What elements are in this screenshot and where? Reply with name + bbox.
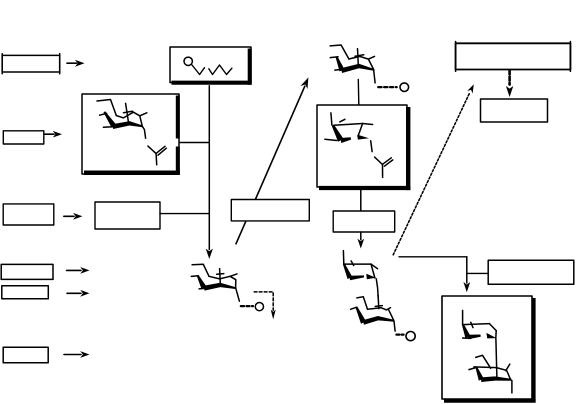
sugar R (upper in box P): thin bonds: [463, 310, 497, 338]
box Q (right): [488, 260, 574, 284]
sugar I: bold wedges: [343, 264, 376, 281]
long diagonal arrow A10 (under box E): [236, 77, 308, 243]
sugar S: anomeric bond down: [511, 381, 513, 393]
lipid icon: circle head: [184, 57, 192, 65]
reaction box E (over diagonal arrow): [231, 200, 309, 221]
sugar J: thin bonds: [351, 295, 394, 320]
dashed arrow A11 from box K to box L: [506, 71, 513, 98]
reagent box R5: [2, 286, 49, 299]
shadowed box G (sugar 2 box): [317, 105, 410, 190]
sugar I: thin bonds: [343, 251, 377, 278]
sugar C1: anomeric bond down: [142, 126, 145, 138]
arrow A5: [67, 290, 90, 297]
sugar E2 (center): thin bonds: [191, 264, 237, 289]
wire: box N to vertical line: [160, 213, 209, 215]
sugar E2: dashed bond to O circle: [241, 303, 264, 311]
reagent box R1 (top left): [2, 54, 60, 74]
sugar J: bold wedges: [355, 306, 394, 324]
sugar F: anomeric leg: [374, 70, 375, 83]
box L: [481, 99, 548, 122]
arrow A6: [64, 351, 90, 358]
sugar E2: anomeric bond: [236, 288, 240, 302]
reagent box R6: [3, 347, 48, 363]
wire: box G down to box H: [360, 190, 362, 212]
sugar G1: bold wedges: [332, 125, 369, 143]
sugar C1: bold wedge bonds: [104, 111, 143, 129]
reaction box H: [333, 211, 395, 232]
wire: vertical from box D + arrow A7 down: [206, 86, 213, 259]
top right box K: [456, 42, 571, 72]
dashed elbow arrow A13: [254, 292, 276, 320]
shadowed box C (sugar 1 box): [82, 94, 180, 175]
reaction box N: [95, 202, 160, 229]
sugar C1: acetyl group: [148, 146, 166, 165]
reagent box R2: [3, 131, 44, 144]
sugar J: dashed bond to O circle: [396, 332, 415, 341]
arrow A3: [64, 213, 83, 220]
sugar E2: bold wedges: [197, 275, 236, 290]
wire: sugar F down into box G: [357, 79, 360, 108]
arrow A8 down from box H: [357, 232, 364, 249]
wire: glycosidic bond sugar I to sugar J: [376, 279, 378, 298]
sugar R: bold wedges: [462, 324, 497, 339]
arrow A9 down into box P: [463, 257, 470, 292]
wire: box C to vertical line: [180, 142, 210, 144]
wire: horizontal line to final branch: [399, 256, 467, 258]
sugar F: dashed bond to O circle: [378, 83, 408, 92]
wire: glycosidic bond sugar R to sugar S: [496, 339, 497, 378]
shadowed box P (final product box): [442, 296, 536, 402]
sugar F (top center): thin bonds: [330, 45, 374, 70]
dotted diagonal arrow A12: [393, 84, 474, 255]
sugar F: bold wedges: [336, 56, 375, 73]
reagent box R4: [1, 264, 53, 279]
sugar G1: acetyl group: [375, 157, 393, 177]
sugar G1: thin bonds: [325, 113, 373, 141]
shadowed box D (lipid icon box, top): [170, 47, 252, 85]
arrow A1: [67, 60, 85, 67]
sugar S: bold wedges: [476, 367, 512, 382]
reagent box R3: [3, 204, 54, 225]
arrow A2: [45, 131, 62, 138]
arrow A4: [67, 267, 90, 274]
sugar J: anomeric bond: [394, 321, 395, 331]
sugar C1: chair ring thin bonds: [97, 100, 147, 128]
wire: connector to box Q: [467, 272, 488, 274]
lipid icon: zigzag tail 1: [192, 65, 205, 75]
sugar G1: anomeric bond: [371, 141, 372, 152]
lipid icon: zigzag tail 2: [209, 65, 232, 75]
sugar S (lower in box P): thin bonds: [469, 355, 511, 379]
